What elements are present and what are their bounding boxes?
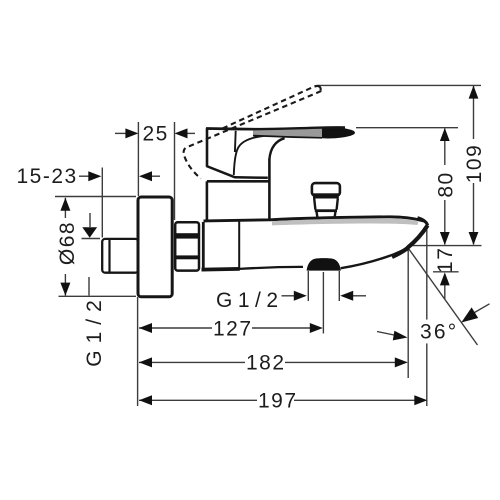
svg-text:17: 17: [434, 247, 457, 273]
svg-text:25: 25: [143, 123, 169, 146]
svg-text:15-23: 15-23: [17, 165, 78, 188]
svg-text:G1/2: G1/2: [216, 289, 284, 312]
svg-text:109: 109: [463, 144, 486, 184]
svg-text:197: 197: [258, 390, 298, 413]
svg-text:127: 127: [213, 318, 253, 341]
svg-text:Ø68: Ø68: [56, 221, 79, 265]
svg-text:80: 80: [434, 171, 457, 197]
svg-text:182: 182: [246, 352, 286, 375]
svg-text:36°: 36°: [420, 321, 458, 344]
svg-text:G1/2: G1/2: [83, 293, 106, 367]
